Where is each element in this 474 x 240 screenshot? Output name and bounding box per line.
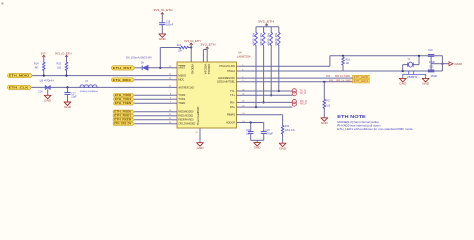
svg-text:RXD0/MODE0: RXD0/MODE0	[178, 110, 193, 114]
svg-text:C21: C21	[429, 66, 434, 68]
svg-text:25MHz: 25MHz	[407, 77, 419, 79]
svg-text:GND: GND	[321, 123, 328, 125]
svg-text:ETH_LED0: ETH_LED0	[354, 77, 369, 79]
svg-text:VDD1A: VDD1A	[203, 64, 206, 75]
svg-text:ETH_TXD0: ETH_TXD0	[115, 95, 132, 97]
svg-text:ETH_LED1 with pulldown for non: ETH_LED1 with pulldown for non-standard …	[337, 127, 413, 131]
svg-text:C22: C22	[246, 130, 251, 132]
svg-text:TX_P: TX_P	[299, 91, 306, 95]
svg-text:ETH NOTE: ETH NOTE	[337, 114, 366, 119]
svg-text:ETH_TXD1: ETH_TXD1	[115, 99, 132, 101]
svg-text:3V3_ETH: 3V3_ETH	[200, 44, 215, 47]
svg-text:49R9 1%: 49R9 1%	[261, 33, 263, 46]
svg-text:GND: GND	[64, 107, 71, 109]
svg-text:(50Ω@100MHz): (50Ω@100MHz)	[80, 91, 98, 93]
svg-text:25: 25	[195, 132, 197, 134]
svg-text:R46: R46	[329, 80, 334, 82]
svg-text:ETH_CLK: ETH_CLK	[9, 85, 29, 89]
svg-text:GND: GND	[159, 39, 166, 41]
svg-text:1k5: 1k5	[57, 66, 62, 69]
svg-text:GND: GND	[399, 84, 406, 86]
svg-text:GND: GND	[44, 100, 51, 102]
svg-text:VDD2A: VDD2A	[207, 64, 210, 75]
svg-text:C16: C16	[166, 21, 171, 23]
svg-text:BR 1k SMD: BR 1k SMD	[335, 76, 350, 78]
svg-text:ETH_MDC: ETH_MDC	[113, 78, 132, 82]
svg-text:RX-: RX-	[230, 100, 235, 104]
svg-text:TX-: TX-	[230, 89, 235, 93]
svg-text:ETH_CRS_DV: ETH_CRS_DV	[114, 124, 131, 126]
svg-text:GND: GND	[422, 84, 429, 86]
svg-text:GND: GND	[454, 62, 462, 66]
svg-text:RBIAS: RBIAS	[227, 113, 235, 117]
svg-text:XTAL2: XTAL2	[227, 69, 236, 73]
svg-text:TX+: TX+	[230, 93, 235, 97]
svg-text:LED1/REGOFF: LED1/REGOFF	[218, 76, 235, 80]
svg-text:1M: 1M	[346, 63, 349, 65]
svg-text:R17: R17	[326, 100, 331, 102]
svg-text:49R9 1%: 49R9 1%	[276, 33, 278, 46]
svg-text:ETH_RXD0: ETH_RXD0	[114, 112, 132, 114]
svg-text:TXD0: TXD0	[178, 93, 186, 97]
svg-text:LED2/nINTSEL: LED2/nINTSEL	[217, 80, 236, 84]
svg-text:nINT/REFCLKO: nINT/REFCLKO	[178, 85, 194, 89]
svg-text:C20: C20	[428, 50, 433, 52]
svg-text:R16: R16	[346, 59, 351, 61]
svg-text:C23: C23	[265, 130, 270, 132]
svg-text:ThermalPAD: ThermalPAD	[197, 106, 200, 125]
svg-text:C24: C24	[38, 91, 43, 93]
svg-text:3V3_ETH: 3V3_ETH	[258, 20, 274, 24]
svg-text:RX+: RX+	[230, 105, 235, 109]
svg-text:LAN8720A: LAN8720A	[237, 54, 251, 58]
svg-text:GND: GND	[254, 148, 261, 150]
svg-text:ETH_LED1: ETH_LED1	[354, 81, 369, 83]
svg-text:nRST: nRST	[178, 66, 185, 70]
svg-text:MDIO: MDIO	[178, 74, 186, 78]
svg-text:MDC: MDC	[178, 78, 184, 82]
svg-text:R45: R45	[326, 76, 331, 78]
svg-text:15pF: 15pF	[429, 62, 436, 64]
svg-text:3V3_IO_ETH: 3V3_IO_ETH	[55, 51, 72, 55]
svg-text:49R9 1%: 49R9 1%	[269, 33, 271, 46]
svg-text:VDDIO: VDDIO	[191, 64, 193, 75]
svg-text:49R9 1%: 49R9 1%	[253, 33, 255, 46]
svg-text:XTAL1/CLKIN: XTAL1/CLKIN	[219, 64, 235, 68]
svg-text:GND: GND	[197, 147, 204, 150]
svg-text:RX_P: RX_P	[300, 102, 307, 106]
svg-text:R15: R15	[57, 63, 62, 66]
svg-text:ETH_RXD1: ETH_RXD1	[114, 116, 132, 118]
svg-text:100nF: 100nF	[166, 25, 174, 27]
svg-text:1uF: 1uF	[246, 133, 251, 135]
svg-text:R22: R22	[177, 45, 182, 47]
svg-text:R23: R23	[285, 126, 290, 128]
svg-text:R14: R14	[34, 63, 39, 66]
svg-text:C17: C17	[71, 94, 76, 96]
svg-text:470pF: 470pF	[265, 133, 274, 135]
svg-text:3V3_IO_ETH: 3V3_IO_ETH	[184, 40, 201, 43]
svg-text:TXEN: TXEN	[178, 101, 185, 105]
svg-text:CRS_DV/MODE2: CRS_DV/MODE2	[178, 122, 195, 126]
svg-text:GND: GND	[279, 148, 286, 150]
svg-text:D6 100mA 0603 MV: D6 100mA 0603 MV	[126, 57, 153, 60]
svg-text:22pF: 22pF	[71, 97, 77, 99]
svg-text:L6 470nH: L6 470nH	[40, 80, 54, 83]
svg-text:ETH_TXEN: ETH_TXEN	[115, 103, 132, 105]
svg-text:3V3_IO_ETH: 3V3_IO_ETH	[154, 8, 173, 12]
svg-text:VDDCR: VDDCR	[226, 120, 235, 124]
svg-text:RXER/PHYAD0: RXER/PHYAD0	[178, 118, 193, 122]
svg-text:RXD1/MODE1: RXD1/MODE1	[178, 114, 193, 118]
svg-text:12k1 1%: 12k1 1%	[285, 130, 295, 132]
svg-text:TXD1: TXD1	[178, 97, 186, 101]
svg-text:ETH_MDIO: ETH_MDIO	[9, 74, 31, 78]
svg-text:ETH_RXER: ETH_RXER	[114, 120, 131, 122]
svg-text:BR 1k SMD: BR 1k SMD	[336, 80, 351, 82]
svg-text:4k7: 4k7	[35, 66, 40, 69]
svg-text:15pF: 15pF	[430, 76, 438, 78]
svg-text:ETH_RST: ETH_RST	[113, 66, 132, 70]
svg-text:3V3: 3V3	[41, 51, 46, 55]
